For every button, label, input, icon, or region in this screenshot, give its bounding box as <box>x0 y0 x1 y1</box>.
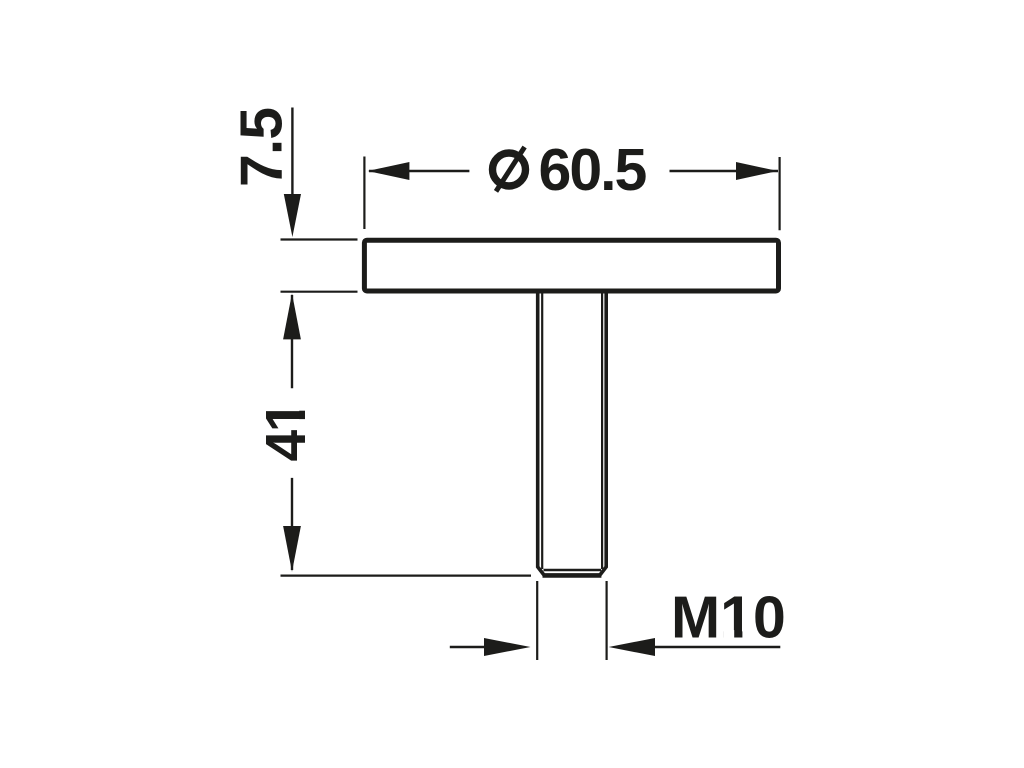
arrowhead 41 up <box>283 293 301 339</box>
dimension line diameter right segment <box>670 170 779 172</box>
dimension line diameter left segment <box>369 170 469 172</box>
arrowhead M10 right pointing left <box>609 638 655 656</box>
thread chamfer line <box>544 569 602 572</box>
stem outer outline <box>538 292 607 575</box>
dimension line 7.5 <box>291 108 293 197</box>
dimension line 41 upper segment <box>291 295 293 388</box>
dimension line 41 lower segment <box>291 478 293 570</box>
extension line M10 right <box>605 581 607 660</box>
extension line stem bottom <box>281 574 532 576</box>
dimension line M10 left segment <box>450 646 486 648</box>
dimension line M10 right segment <box>653 646 780 648</box>
svg-text:41: 41 <box>254 401 318 461</box>
arrowhead diameter right <box>736 162 778 180</box>
glyph correction patch for digit 1 of 41 (remove serif foot) <box>298 401 306 411</box>
thread root line left <box>541 292 543 569</box>
diameter symbol <box>493 147 526 191</box>
arrowhead M10 left pointing right <box>484 638 531 656</box>
extension line diameter left <box>363 157 365 230</box>
arrowhead 7.5 down <box>284 194 301 237</box>
arrowhead 41 down <box>283 526 301 572</box>
extension line disc bottom left <box>281 291 358 293</box>
arrowhead diameter left <box>368 162 410 180</box>
extension line diameter right <box>778 157 780 230</box>
svg-text:7.5: 7.5 <box>229 108 295 187</box>
extension line disc top left <box>281 238 358 240</box>
thread root line right <box>601 292 603 569</box>
svg-text:M10: M10 <box>671 584 786 650</box>
svg-text:60.5: 60.5 <box>539 137 647 203</box>
glyph correction patch for digit 1 of M10 (remove serif foot) <box>724 630 735 638</box>
disc top plate outline <box>364 240 778 291</box>
extension line M10 left <box>536 581 538 660</box>
stem bottom edge <box>543 573 602 578</box>
